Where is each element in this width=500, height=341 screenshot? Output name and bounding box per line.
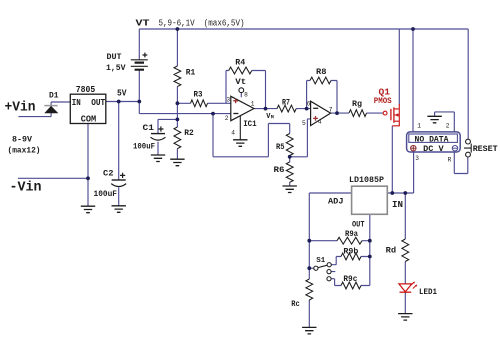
svg-text:COM: COM [81,114,97,125]
svg-text:7805: 7805 [76,85,96,95]
svg-text:IN: IN [72,97,81,108]
svg-text:R7: R7 [282,98,290,108]
svg-text:S1: S1 [316,257,325,265]
svg-text:PMOS: PMOS [374,96,392,106]
svg-text:R6: R6 [274,165,285,175]
svg-text:Rc: Rc [291,299,300,309]
svg-text:R9b: R9b [343,247,358,257]
svg-text:100uF: 100uF [94,190,118,199]
svg-text:3: 3 [226,97,230,104]
svg-text:Rg: Rg [352,99,362,109]
svg-text:LD1085P: LD1085P [349,176,384,185]
svg-text:4: 4 [318,119,322,126]
svg-text:R4: R4 [235,58,245,68]
svg-text:NO DATA: NO DATA [415,134,450,144]
svg-text:R3: R3 [194,90,203,100]
svg-text:1: 1 [417,123,421,130]
svg-text:IC1: IC1 [243,120,257,129]
svg-text:C2: C2 [103,169,114,178]
svg-text:100uF: 100uF [133,143,155,152]
svg-text:+Vin: +Vin [5,101,36,116]
svg-text:IN: IN [392,199,403,210]
svg-text:OUT: OUT [91,97,105,108]
svg-text:5,9-6,1V (max6,5V): 5,9-6,1V (max6,5V) [159,19,245,29]
svg-text:RESET: RESET [473,144,498,154]
svg-text:R9c: R9c [343,274,357,284]
svg-text:(max12): (max12) [8,147,41,156]
svg-text:5V: 5V [117,87,127,98]
svg-text:8-9V: 8-9V [12,136,32,145]
svg-text:LED1: LED1 [419,287,437,297]
svg-text:D1: D1 [49,92,59,101]
svg-text:6: 6 [307,101,311,108]
svg-text:1,5V: 1,5V [106,64,126,73]
svg-text:R2: R2 [184,128,194,138]
svg-text:R9a: R9a [345,229,358,239]
svg-text:DC V: DC V [423,144,444,154]
svg-text:2: 2 [446,122,450,129]
svg-text:8: 8 [244,92,248,99]
svg-text:Vt: Vt [235,77,246,87]
svg-text:M: M [271,115,274,121]
svg-text:ADJ: ADJ [328,196,344,206]
svg-text:C1: C1 [143,123,155,133]
svg-text:4: 4 [231,129,235,136]
svg-text:OUT: OUT [352,219,365,229]
svg-text:7: 7 [329,107,333,114]
svg-text:R5: R5 [276,142,285,152]
svg-text:R1: R1 [186,67,196,77]
svg-text:3: 3 [415,155,419,162]
svg-text:5: 5 [302,120,306,127]
svg-text:R8: R8 [316,67,327,77]
svg-text:-Vin: -Vin [10,181,42,196]
svg-text:R: R [448,156,452,163]
svg-text:Rd: Rd [386,245,397,255]
svg-text:DUT: DUT [107,53,122,62]
svg-text:1: 1 [251,100,255,107]
svg-text:2: 2 [225,115,229,122]
svg-text:VT: VT [136,18,150,29]
